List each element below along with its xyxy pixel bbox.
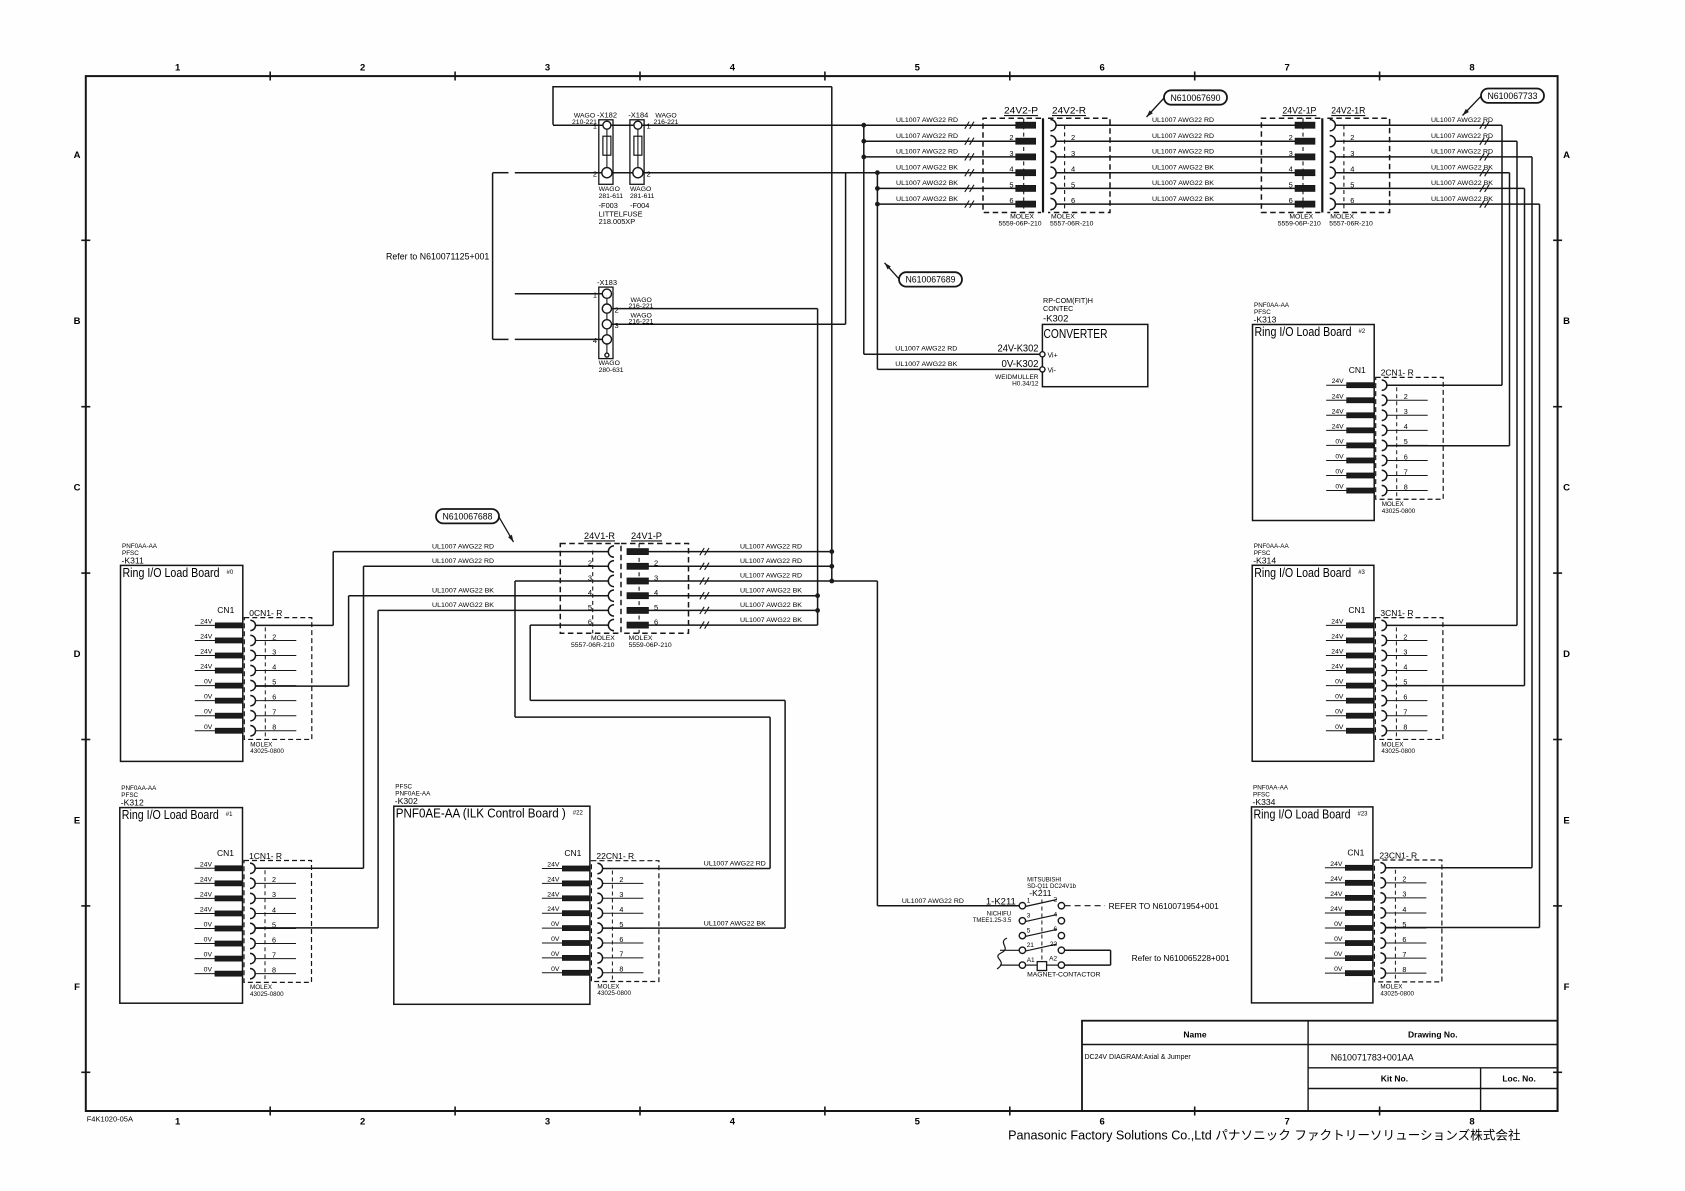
svg-text:UL1007 AWG22 BK: UL1007 AWG22 BK: [896, 180, 958, 187]
board K314 CN1 pin 3 (24V): [1326, 655, 1347, 657]
board K302 CN1 pin 1 (24V): [542, 868, 563, 870]
board K334 CN1 pin 3 (24V): [1325, 897, 1346, 899]
svg-text:4: 4: [619, 905, 623, 914]
riser ILK BK: [784, 700, 786, 928]
connector 2CN1 pin 5 socket: [1382, 440, 1387, 450]
svg-text:A: A: [1563, 150, 1570, 161]
board K312 CN1 pin 4 (24V): [195, 912, 216, 914]
svg-text:0V-K302: 0V-K302: [1002, 359, 1039, 370]
connector 24V1-R pin 2 socket: [608, 561, 614, 572]
svg-text:-K302: -K302: [1043, 314, 1068, 325]
converter terminal Vi+: [1040, 352, 1045, 357]
svg-text:UL1007 AWG22 RD: UL1007 AWG22 RD: [1152, 117, 1214, 124]
connector 2CN1 pin 7 socket: [1382, 470, 1387, 480]
connector 24V2-1P pin 2 bar: [1295, 138, 1315, 144]
wires 24V1-P right rows: [648, 551, 831, 553]
svg-text:4: 4: [1009, 165, 1013, 174]
connector 23CN1 pin 1 socket: [1380, 863, 1385, 873]
svg-text:PNF0AA-AA: PNF0AA-AA: [1254, 302, 1290, 309]
connector 0CN1 pin 3 stub wire: [256, 655, 297, 657]
connector 23CN1 pin 3 socket: [1380, 893, 1385, 903]
svg-text:UL1007 AWG22 BK: UL1007 AWG22 BK: [896, 164, 958, 171]
board K334 CN1 pin 1 (24V): [1325, 867, 1346, 869]
svg-text:D: D: [74, 649, 81, 660]
svg-text:22CN1- R: 22CN1- R: [596, 851, 634, 861]
wire contactor A2 to bracket: [1065, 964, 1111, 966]
svg-text:4: 4: [1402, 905, 1406, 914]
connector 3CN1 pin 2 socket: [1381, 635, 1386, 645]
svg-text:0V: 0V: [1335, 469, 1344, 476]
svg-text:24V2-1R: 24V2-1R: [1331, 106, 1365, 116]
cable bundle squiggle: [997, 938, 1007, 969]
svg-text:F4K1020-05A: F4K1020-05A: [87, 1115, 133, 1124]
svg-text:5: 5: [1009, 180, 1013, 189]
wires 24V1-R left rows: [333, 551, 608, 553]
board K313 CN1 pin 2 (24V): [1326, 399, 1347, 401]
bus V3 24V feed vertical x831.8: [831, 87, 833, 581]
connector 3CN1 pin 7 socket: [1381, 711, 1386, 721]
svg-text:CN1: CN1: [1348, 605, 1365, 615]
svg-text:281-611: 281-611: [630, 193, 655, 200]
board K302 CN1 pin 2 (24V): [542, 882, 563, 884]
wire 1CN1-R pin1 to riser: [255, 867, 363, 869]
svg-text:3: 3: [272, 890, 276, 899]
connector 3CN1 pin 4 stub wire: [1387, 670, 1428, 672]
svg-text:43025-0800: 43025-0800: [1381, 748, 1415, 755]
connector 24V1-P pin 2 bar: [627, 563, 648, 569]
board K311 CN1 pin 5 (0V): [195, 685, 216, 687]
svg-text:-K334: -K334: [1253, 797, 1276, 807]
connector 3CN1 pin 3 socket: [1381, 650, 1386, 660]
connector 2CN1 pin 7 stub wire: [1387, 475, 1428, 477]
svg-text:24V1-P: 24V1-P: [631, 531, 662, 541]
svg-text:3: 3: [1402, 890, 1406, 899]
connector 24V2-1P pin 4 bar: [1295, 170, 1315, 176]
svg-text:0V: 0V: [204, 709, 213, 716]
callout N610067733: [1481, 89, 1544, 103]
svg-text:0V: 0V: [204, 679, 213, 686]
board K314 CN1 pin 4 (24V): [1326, 670, 1347, 672]
connector 24V2-P pin 6 bar: [1016, 201, 1036, 207]
connector 3CN1 pin 6 socket: [1381, 695, 1386, 705]
title block divider vertical: [1307, 1021, 1309, 1111]
svg-text:1: 1: [647, 122, 651, 131]
connector 3CN1 pin 5 stub wire: [1387, 685, 1428, 687]
connector 1CN1 pin 3 stub wire: [255, 897, 296, 899]
svg-text:#0: #0: [227, 570, 234, 576]
connector 22CN1 pin 2 stub wire: [603, 882, 644, 884]
svg-text:N610067733: N610067733: [1488, 90, 1538, 101]
svg-text:2: 2: [272, 875, 276, 884]
svg-text:2: 2: [619, 875, 623, 884]
svg-text:24V: 24V: [200, 649, 213, 656]
connector 0CN1 pin 4 stub wire: [256, 670, 297, 672]
connector 0CN1 pin 8 stub wire: [256, 730, 297, 732]
board K311 CN1 pin 7 (0V): [195, 715, 216, 717]
svg-text:1CN1- R: 1CN1- R: [249, 851, 282, 861]
board K302 CN1 pin 5 (0V): [542, 927, 563, 929]
svg-text:Ring I/O Load Board: Ring I/O Load Board: [123, 566, 220, 580]
board K313 CN1 pin 8 (0V): [1326, 490, 1347, 492]
wire break marks right rows: [1480, 122, 1489, 129]
bus V4 0V vertical x817.6: [817, 309, 819, 625]
svg-text:DC24V DIAGRAM:Axial & Jumper: DC24V DIAGRAM:Axial & Jumper: [1085, 1054, 1192, 1061]
svg-text:A: A: [74, 150, 81, 161]
svg-text:0V: 0V: [1334, 936, 1343, 943]
svg-text:1: 1: [593, 290, 597, 299]
bracket vertical: [1110, 950, 1112, 965]
svg-text:Loc. No.: Loc. No.: [1502, 1074, 1536, 1084]
junction dots 24V feed bus at 24V1: [829, 549, 834, 554]
connector 22CN1 pin 5 socket: [597, 923, 602, 933]
svg-text:0V: 0V: [204, 937, 213, 944]
connector 22CN1 pin 6 socket: [597, 938, 602, 948]
board K314 CN1 pin 7 (0V): [1326, 715, 1347, 717]
connector 2CN1 pin 2 stub wire: [1387, 399, 1428, 401]
svg-text:D: D: [1563, 649, 1570, 660]
wire row2 bus to 24V2-P pin2: [864, 140, 1016, 142]
svg-text:Refer to N610071125+001: Refer to N610071125+001: [386, 252, 489, 262]
connector 24V1-R pin 6 socket: [608, 619, 614, 630]
wire bus V1 to converter Vi+: [864, 353, 1040, 355]
svg-text:UL1007 AWG22 BK: UL1007 AWG22 BK: [432, 587, 494, 594]
wire 2CN1-R pin5 from drop: [1387, 445, 1510, 447]
connector 22CN1 pin 3 stub wire: [603, 897, 644, 899]
connector 1CN1 pin 4 socket: [250, 908, 255, 918]
connector 3CN1 inner dashed: [1395, 627, 1397, 739]
connector 1CN1 housing: [244, 861, 312, 983]
border frame: [86, 76, 1558, 1111]
connector 24V1-P housing: [621, 544, 689, 634]
svg-text:1: 1: [175, 63, 181, 74]
title block drawing row line: [1308, 1067, 1558, 1069]
wire 3CN1-R pin5 from drop: [1387, 685, 1525, 687]
wire break marks left rows: [965, 122, 974, 129]
svg-text:0V: 0V: [204, 967, 213, 974]
svg-text:0V: 0V: [1335, 484, 1344, 491]
svg-text:24V: 24V: [1332, 423, 1345, 430]
svg-text:N610067690: N610067690: [1171, 92, 1221, 103]
connector 24V2-1P housing: [1261, 118, 1320, 212]
svg-text:5559-06P-210: 5559-06P-210: [629, 642, 672, 649]
board K312 CN1 pin 7 (0V): [195, 958, 216, 960]
svg-text:2: 2: [593, 169, 597, 178]
board K334 CN1 pin 7 (0V): [1325, 957, 1346, 959]
connector 1CN1 pin 5 socket: [250, 923, 255, 933]
svg-text:CN1: CN1: [1349, 365, 1366, 375]
connector 2CN1 pin 8 socket: [1382, 485, 1387, 495]
connector 24V2-R pin 4 socket: [1050, 167, 1056, 178]
connector 24V2-1P pin 3 bar: [1295, 154, 1315, 160]
svg-text:8: 8: [272, 965, 276, 974]
svg-text:2: 2: [615, 305, 619, 314]
connector 0CN1 pin 8 socket: [250, 726, 255, 736]
svg-text:24V: 24V: [1331, 649, 1344, 656]
connector 2CN1 pin 3 socket: [1382, 410, 1387, 420]
svg-text:UL1007 AWG22 RD: UL1007 AWG22 RD: [704, 860, 766, 867]
svg-text:8: 8: [1402, 965, 1406, 974]
riser row1 to 0CN1-R pin1: [332, 552, 334, 626]
connector 2CN1 pin 1 socket: [1382, 380, 1387, 390]
board K311 CN1 pin 1 (24V): [195, 624, 216, 626]
svg-text:6: 6: [272, 692, 276, 701]
svg-text:2: 2: [360, 63, 365, 74]
svg-text:43025-0800: 43025-0800: [250, 991, 284, 998]
svg-text:PNF0AA-AA: PNF0AA-AA: [121, 785, 157, 792]
svg-text:0V: 0V: [1335, 679, 1344, 686]
svg-text:UL1007 AWG22 BK: UL1007 AWG22 BK: [1431, 164, 1493, 171]
board K311 box: [121, 565, 243, 761]
svg-text:24V: 24V: [1332, 393, 1345, 400]
svg-text:43025-0800: 43025-0800: [250, 748, 284, 755]
svg-text:UL1007 AWG22 RD: UL1007 AWG22 RD: [902, 898, 964, 905]
svg-text:24V: 24V: [547, 891, 560, 898]
connector 24V1-P pin 1 bar: [627, 549, 648, 555]
svg-text:F: F: [74, 982, 80, 993]
connector 22CN1 pin 4 stub wire: [603, 912, 644, 914]
grid column ticks top: [269, 72, 271, 81]
svg-text:3: 3: [545, 63, 550, 74]
svg-text:5: 5: [915, 1117, 921, 1128]
board K314 CN1 pin 1 (24V): [1326, 624, 1347, 626]
board K334 box: [1252, 807, 1373, 1003]
svg-text:UL1007 AWG22 BK: UL1007 AWG22 BK: [1431, 196, 1493, 203]
svg-text:UL1007 AWG22 BK: UL1007 AWG22 BK: [1152, 164, 1214, 171]
connector 24V2-1R housing: [1327, 118, 1389, 212]
svg-text:8: 8: [1403, 723, 1407, 732]
wire 22CN1-R pin1 (RD) to riser: [603, 868, 771, 870]
svg-text:5559-06P-210: 5559-06P-210: [998, 220, 1041, 227]
connector 22CN1 pin 4 socket: [597, 908, 602, 918]
junction dots bus V1: [861, 123, 866, 128]
wire row6 horizontal to ILK riser: [530, 699, 785, 701]
svg-text:7: 7: [272, 950, 276, 959]
connector 23CN1 pin 6 stub wire: [1386, 942, 1427, 944]
connector 22CN1 inner dashed: [611, 871, 613, 982]
connector 22CN1 pin 7 stub wire: [603, 957, 644, 959]
connector 0CN1 pin 5 socket: [250, 680, 255, 690]
svg-text:8: 8: [1469, 63, 1474, 74]
connector 3CN1 housing: [1375, 618, 1443, 740]
connector 3CN1 pin 5 socket: [1381, 680, 1386, 690]
svg-text:6: 6: [1009, 196, 1013, 205]
svg-text:UL1007 AWG22 RD: UL1007 AWG22 RD: [740, 543, 802, 550]
connector 24V1-R inner dashed: [592, 551, 594, 634]
board K314 CN1 pin 6 (0V): [1326, 700, 1347, 702]
callout N610067733 leader: [1463, 96, 1482, 116]
wire row3 horizontal to ILK riser: [515, 716, 770, 718]
svg-text:#1: #1: [226, 812, 233, 818]
connector 1CN1 inner dashed: [264, 870, 266, 982]
svg-text:24V: 24V: [200, 633, 213, 640]
converter terminal Vi-: [1040, 367, 1045, 372]
connector 24V2-1R pin 6 socket: [1330, 198, 1336, 209]
board K312 CN1 pin 6 (0V): [195, 943, 216, 945]
board K313 CN1 pin 7 (0V): [1326, 475, 1347, 477]
connector 3CN1 pin 4 socket: [1381, 665, 1386, 675]
svg-text:3: 3: [545, 1117, 550, 1128]
svg-text:3: 3: [615, 321, 619, 330]
connector 2CN1 pin 4 stub wire: [1387, 429, 1428, 431]
svg-text:24V: 24V: [200, 891, 213, 898]
svg-text:23CN1- R: 23CN1- R: [1379, 850, 1417, 860]
svg-text:24V2-1P: 24V2-1P: [1282, 106, 1316, 116]
svg-text:UL1007 AWG22 BK: UL1007 AWG22 BK: [1152, 196, 1214, 203]
board K313 CN1 pin 4 (24V): [1326, 429, 1347, 431]
svg-text:5557-06R-210: 5557-06R-210: [1329, 220, 1373, 227]
svg-text:N610067688: N610067688: [443, 511, 493, 522]
svg-text:24V: 24V: [1330, 876, 1343, 883]
svg-text:7: 7: [1284, 1117, 1289, 1128]
svg-text:6: 6: [272, 935, 276, 944]
board K312 CN1 pin 1 (24V): [195, 867, 216, 869]
svg-text:6: 6: [1403, 692, 1407, 701]
wire X183 pin1: [515, 293, 603, 295]
connector 22CN1 pin 5 stub wire: [603, 927, 644, 929]
riser row3 down: [514, 581, 516, 717]
svg-text:#3: #3: [1358, 570, 1365, 576]
connector 24V2-1P pin 1 bar: [1295, 122, 1315, 128]
svg-text:24V: 24V: [1330, 861, 1343, 868]
svg-text:E: E: [74, 815, 80, 826]
svg-text:5: 5: [1027, 927, 1031, 934]
svg-text:UL1007 AWG22 BK: UL1007 AWG22 BK: [1431, 180, 1493, 187]
connector 0CN1 pin 7 stub wire: [256, 715, 297, 717]
svg-text:4: 4: [1403, 662, 1407, 671]
connector 24V1-R pin 1 socket: [608, 546, 614, 557]
svg-text:24V2-R: 24V2-R: [1052, 106, 1086, 116]
svg-text:-K311: -K311: [122, 555, 145, 565]
wire contactor 21 left with cable squiggle: [1000, 949, 1019, 951]
wires middle rows 24V2-R to 24V2-1P: [1056, 124, 1295, 126]
connector 1CN1 pin 5 stub wire: [255, 928, 296, 930]
connector 24V2-1P mating line: [1321, 118, 1323, 212]
wire 23CN1-R pin1 from drop: [1386, 867, 1532, 869]
svg-text:5: 5: [915, 63, 921, 74]
board K313 CN1 pin 5 (0V): [1326, 444, 1347, 446]
svg-text:24V: 24V: [547, 906, 560, 913]
callout N610067690: [1164, 90, 1227, 104]
feed box outline top: [553, 87, 832, 125]
svg-text:CONVERTER: CONVERTER: [1044, 327, 1108, 341]
fuse F004 (X184): [630, 120, 644, 185]
svg-text:CONTEC: CONTEC: [1043, 304, 1073, 313]
svg-text:24V: 24V: [1332, 408, 1345, 415]
svg-text:24V-K302: 24V-K302: [998, 344, 1039, 355]
connector 1CN1 pin 2 stub wire: [255, 882, 296, 884]
svg-text:F: F: [1564, 982, 1570, 993]
connector 2CN1 inner dashed: [1396, 387, 1398, 499]
connector 23CN1 pin 4 stub wire: [1386, 912, 1427, 914]
connector 1CN1 pin 8 socket: [250, 968, 255, 978]
connector 3CN1 pin 6 stub wire: [1387, 700, 1428, 702]
svg-text:Ring I/O Load Board: Ring I/O Load Board: [122, 808, 219, 822]
wire X183 pin2 to 0V bus: [612, 308, 818, 310]
svg-text:2: 2: [1403, 632, 1407, 641]
wire 0CN1-R pin1 to riser: [256, 624, 334, 626]
svg-text:24V: 24V: [1332, 378, 1345, 385]
svg-text:A1: A1: [1027, 957, 1035, 964]
board K302 CN1 pin 8 (0V): [542, 972, 563, 974]
callout N610067689: [899, 272, 962, 286]
board K334 CN1 pin 6 (0V): [1325, 942, 1346, 944]
connector 24V2-R pin 2 socket: [1050, 136, 1056, 147]
connector 24V2-1P pin 5 bar: [1295, 185, 1315, 191]
svg-text:6: 6: [1100, 1117, 1105, 1128]
connector 24V2-1P pin 6 bar: [1295, 201, 1315, 207]
connector 24V2-1R pin 2 socket: [1330, 136, 1336, 147]
svg-text:24V: 24V: [1331, 618, 1344, 625]
svg-text:218.005XP: 218.005XP: [599, 217, 636, 226]
svg-text:Drawing No.: Drawing No.: [1408, 1030, 1458, 1040]
board K302 CN1 pin 3 (24V): [542, 897, 563, 899]
svg-text:1: 1: [1027, 898, 1031, 905]
svg-text:TMEE1.25-3.5: TMEE1.25-3.5: [973, 918, 1012, 924]
connector 3CN1 pin 7 stub wire: [1387, 715, 1428, 717]
wire 1CN1-R pin5 to riser: [255, 927, 378, 929]
svg-text:#2: #2: [1359, 329, 1366, 335]
svg-text:24V: 24V: [200, 618, 213, 625]
svg-text:0V: 0V: [204, 724, 213, 731]
svg-text:24V: 24V: [547, 862, 560, 869]
svg-text:4: 4: [730, 1117, 736, 1128]
connector 24V2-R pin 5 socket: [1050, 183, 1056, 194]
connector 24V2-R pin 3 socket: [1050, 151, 1056, 162]
connector 23CN1 pin 5 socket: [1380, 923, 1385, 933]
svg-text:24V: 24V: [1331, 633, 1344, 640]
connector 1CN1 pin 3 socket: [250, 893, 255, 903]
board K334 CN1 pin 8 (0V): [1325, 972, 1346, 974]
svg-text:24V1-R: 24V1-R: [584, 531, 615, 541]
svg-text:N610067689: N610067689: [906, 274, 956, 285]
svg-text:UL1007 AWG22 RD: UL1007 AWG22 RD: [740, 558, 802, 565]
board K312 CN1 pin 8 (0V): [195, 973, 216, 975]
svg-text:210-221: 210-221: [572, 119, 597, 126]
connector 22CN1 pin 8 socket: [597, 968, 602, 978]
wire 22CN1-R pin5 (BK) to riser: [603, 927, 786, 929]
board K334 CN1 pin 5 (0V): [1325, 927, 1346, 929]
board K314 CN1 pin 8 (0V): [1326, 730, 1347, 732]
svg-text:-K313: -K313: [1254, 315, 1277, 325]
wire break marks 24V1 right rows: [700, 548, 709, 555]
connector 2CN1 pin 3 stub wire: [1387, 414, 1428, 416]
svg-text:UL1007 AWG22 RD: UL1007 AWG22 RD: [1431, 133, 1493, 140]
title block outer box: [1082, 1021, 1558, 1111]
svg-text:UL1007 AWG22 RD: UL1007 AWG22 RD: [896, 117, 958, 124]
svg-text:-K312: -K312: [121, 798, 144, 808]
svg-text:#22: #22: [573, 811, 584, 817]
svg-text:8: 8: [272, 723, 276, 732]
svg-text:4: 4: [272, 662, 276, 671]
svg-text:UL1007 AWG22 BK: UL1007 AWG22 BK: [895, 361, 957, 368]
connector 0CN1 pin 4 socket: [250, 665, 255, 675]
connector 22CN1 pin 3 socket: [597, 893, 602, 903]
svg-text:0CN1- R: 0CN1- R: [249, 608, 282, 618]
connector 22CN1 housing: [591, 861, 659, 982]
wire contactor pin2 dashed to refer: [1065, 905, 1105, 907]
wire X183 pin4 from refer bracket: [515, 338, 603, 340]
connector 23CN1 pin 8 stub wire: [1386, 972, 1427, 974]
svg-text:7: 7: [619, 950, 623, 959]
wire row3 bus to 24V2-P pin3: [864, 156, 1016, 158]
svg-text:UL1007 AWG22 RD: UL1007 AWG22 RD: [895, 346, 957, 353]
wire 0CN1-R pin5 to riser: [256, 685, 349, 687]
svg-text:7: 7: [1402, 950, 1406, 959]
connector 23CN1 pin 7 socket: [1380, 953, 1385, 963]
board K334 CN1 pin 4 (24V): [1325, 912, 1346, 914]
svg-text:-K302: -K302: [395, 796, 418, 806]
svg-text:3: 3: [1027, 913, 1031, 920]
